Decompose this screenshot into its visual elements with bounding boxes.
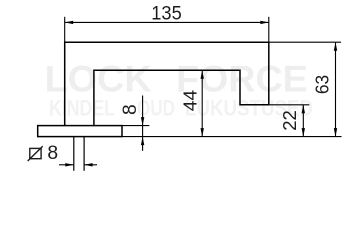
svg-text:LOCK: LOCK bbox=[45, 58, 152, 99]
svg-text:135: 135 bbox=[151, 3, 182, 25]
svg-text:KINDEL: KINDEL bbox=[49, 96, 115, 121]
svg-text:22: 22 bbox=[280, 110, 300, 131]
svg-text:63: 63 bbox=[313, 75, 333, 94]
svg-text:44: 44 bbox=[181, 90, 201, 111]
svg-text:8: 8 bbox=[120, 104, 141, 115]
svg-text:8: 8 bbox=[47, 143, 58, 164]
